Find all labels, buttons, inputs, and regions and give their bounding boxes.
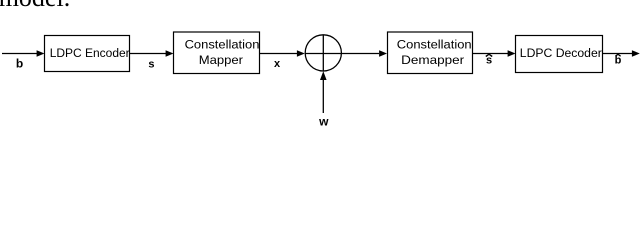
svg-text:Mapper: Mapper xyxy=(199,53,243,67)
svg-text:Constellation: Constellation xyxy=(397,37,472,51)
wire input b xyxy=(2,50,45,57)
svg-text:Constellation: Constellation xyxy=(185,37,260,51)
block LDPC Encoder xyxy=(45,36,130,72)
block LDPC Decoder xyxy=(516,36,603,73)
wire mapper to adder xyxy=(260,50,305,57)
wire noise w into adder xyxy=(320,71,327,113)
svg-text:LDPC Decoder: LDPC Decoder xyxy=(520,46,602,60)
wire demapper to decoder xyxy=(473,50,516,57)
node b-hat label xyxy=(615,54,622,66)
block Constellation Mapper xyxy=(174,32,260,74)
wire adder to demapper xyxy=(342,50,388,57)
svg-text:model.: model. xyxy=(0,0,70,12)
wire output b-hat xyxy=(603,50,640,57)
wire encoder to mapper xyxy=(130,50,174,57)
svg-text:LDPC Encoder: LDPC Encoder xyxy=(50,46,130,60)
block Constellation Demapper xyxy=(388,32,473,74)
svg-text:Demapper: Demapper xyxy=(401,53,464,67)
svg-text:s: s xyxy=(148,59,154,71)
svg-text:x: x xyxy=(274,58,281,70)
svg-text:b: b xyxy=(16,57,23,71)
svg-text:w: w xyxy=(318,115,329,128)
adder (circle with plus) xyxy=(305,35,341,71)
node s-hat label xyxy=(486,54,492,66)
